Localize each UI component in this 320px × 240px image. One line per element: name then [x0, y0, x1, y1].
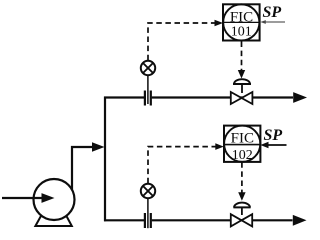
pump P1 base [35, 211, 71, 227]
wire bottom branch pipe right [152, 219, 293, 221]
arrow FIC101 to valve [238, 70, 245, 79]
wire FE2 tap [147, 197, 149, 228]
wire FIC101 output dashed [241, 42, 243, 71]
orifice FE1 left plate [144, 91, 146, 106]
arrow SP into FIC101 [260, 20, 266, 24]
svg-text:SP: SP [263, 4, 282, 21]
wire pump discharge riser [72, 147, 93, 190]
arrow FIC102 to valve [238, 192, 245, 201]
svg-text:FIC: FIC [231, 131, 254, 147]
controller FIC102 [224, 126, 260, 163]
controller FIC101 [223, 4, 260, 40]
orifice FE1 right plate [150, 91, 152, 106]
svg-text:SP: SP [264, 127, 283, 144]
arrow inlet [42, 193, 55, 203]
wire SP line (top) [264, 21, 286, 23]
svg-text:101: 101 [231, 25, 252, 40]
transmitter FT1 [141, 61, 155, 75]
wire inlet line [2, 197, 42, 199]
wire FT1 signal dashed [148, 23, 217, 60]
valve CV2 body [231, 214, 252, 226]
transmitter FT2 [141, 184, 155, 198]
wire FT2 signal dashed [148, 147, 218, 184]
wire SP line (bottom) [266, 144, 287, 146]
orifice FE2 left plate [144, 213, 146, 228]
arrow bottom branch outlet [293, 215, 307, 226]
orifice FE2 right plate [150, 213, 152, 228]
arrow SP into FIC102 [260, 142, 268, 148]
arrow top branch outlet [293, 92, 307, 103]
wire FIC102 output dashed [241, 162, 243, 193]
arrow discharge to header [92, 142, 105, 152]
wire bottom branch pipe left [104, 219, 144, 221]
wire header [104, 97, 106, 222]
pump P1 casing [34, 179, 75, 220]
arrow FT1 signal into FIC101 [215, 20, 224, 27]
valve CV1 actuator dome [233, 79, 251, 93]
wire FE1 tap [147, 74, 149, 104]
svg-text:102: 102 [232, 148, 253, 163]
valve CV2 actuator dome [233, 203, 250, 215]
svg-text:FIC: FIC [230, 9, 253, 25]
wire top branch pipe left [104, 96, 144, 98]
arrow FT2 signal into FIC102 [215, 143, 224, 150]
valve CV1 body [231, 92, 253, 104]
wire top branch pipe right [152, 96, 293, 98]
